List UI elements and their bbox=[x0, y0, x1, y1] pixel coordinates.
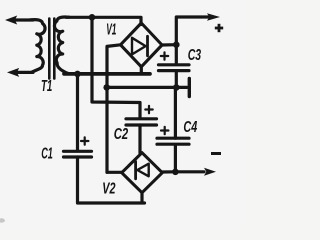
wire: C1 bottom to V2 bottom corner bbox=[78, 157, 145, 203]
svg-text:V1: V1 bbox=[106, 22, 116, 39]
bridge rectifier V2 diamond bbox=[122, 153, 163, 193]
diode symbol inside V1 bbox=[132, 36, 148, 56]
+ output arrowhead bbox=[207, 13, 220, 21]
diode symbol inside V2 bbox=[136, 162, 149, 179]
polarity + of C2 bbox=[145, 106, 152, 113]
wire: V1 bottom corner stub bbox=[140, 67, 143, 74]
junction dot secondary-bottom node bbox=[74, 71, 81, 78]
polarity + of C3 bbox=[161, 52, 168, 59]
wire: C2 bottom to V2 top corner bbox=[138, 125, 141, 153]
wire: plus node down to C3 top bbox=[175, 45, 178, 64]
junction dot secondary-top node bbox=[89, 14, 96, 21]
bridge rectifier V1 diamond bbox=[121, 23, 163, 67]
wire: V1 left corner to left vertical bus bbox=[107, 45, 121, 173]
AC input arrow bottom-left bbox=[7, 68, 33, 77]
capacitor C2 bbox=[126, 119, 157, 125]
svg-text:V2: V2 bbox=[102, 181, 115, 198]
wire: V1 right corner to plus node bbox=[162, 43, 176, 46]
wire: secondary-bottom node down to C1 top bbox=[76, 74, 79, 150]
junction dot mid-rail left bbox=[103, 84, 110, 91]
wire: left bus to V2 left corner bbox=[107, 171, 122, 174]
midpoint terminal bar bbox=[188, 79, 191, 97]
junction dot plus node bbox=[173, 41, 180, 48]
polarity + of C1 bbox=[81, 137, 88, 144]
transformer T1 primary winding bbox=[31, 20, 46, 73]
svg-text:T1: T1 bbox=[41, 78, 52, 95]
svg-text:C2: C2 bbox=[114, 126, 128, 143]
label - output bbox=[211, 152, 221, 155]
wire: secondary-top node down and over to C2 top bbox=[92, 17, 140, 118]
label + output bbox=[215, 24, 223, 32]
transformer T1 core bbox=[49, 19, 54, 79]
svg-text:C1: C1 bbox=[41, 146, 53, 163]
capacitor C3 bbox=[159, 65, 190, 71]
svg-text:C3: C3 bbox=[188, 47, 201, 64]
wire: C4 bottom to minus node bbox=[174, 145, 177, 172]
junction dot mid-rail right bbox=[173, 84, 180, 91]
transformer T1 secondary winding bbox=[54, 17, 70, 74]
wire: minus node to - output bbox=[175, 170, 204, 173]
mid rail wire bbox=[107, 86, 177, 89]
capacitor C4 bbox=[157, 138, 189, 144]
AC input arrow top-left bbox=[5, 16, 33, 25]
svg-text:C4: C4 bbox=[183, 119, 197, 136]
junction dot minus node bbox=[172, 169, 179, 176]
midpoint terminal stub bbox=[176, 86, 187, 89]
wire: V2 right corner to minus node bbox=[162, 170, 175, 173]
polarity + of C4 bbox=[161, 127, 168, 134]
scan smudge bottom-left bbox=[0, 218, 5, 222]
- output arrowhead bbox=[204, 168, 216, 176]
wire: secondary bottom to V1 bottom corner bbox=[64, 72, 150, 76]
wire: secondary top to top rail and V1 top corner bbox=[66, 17, 141, 24]
wire: plus node up and right to + output bbox=[176, 17, 208, 45]
capacitor C1 bbox=[64, 151, 92, 157]
wire: C4 top to mid node bbox=[174, 87, 177, 138]
wire: C3 bottom to mid node bbox=[175, 71, 178, 88]
